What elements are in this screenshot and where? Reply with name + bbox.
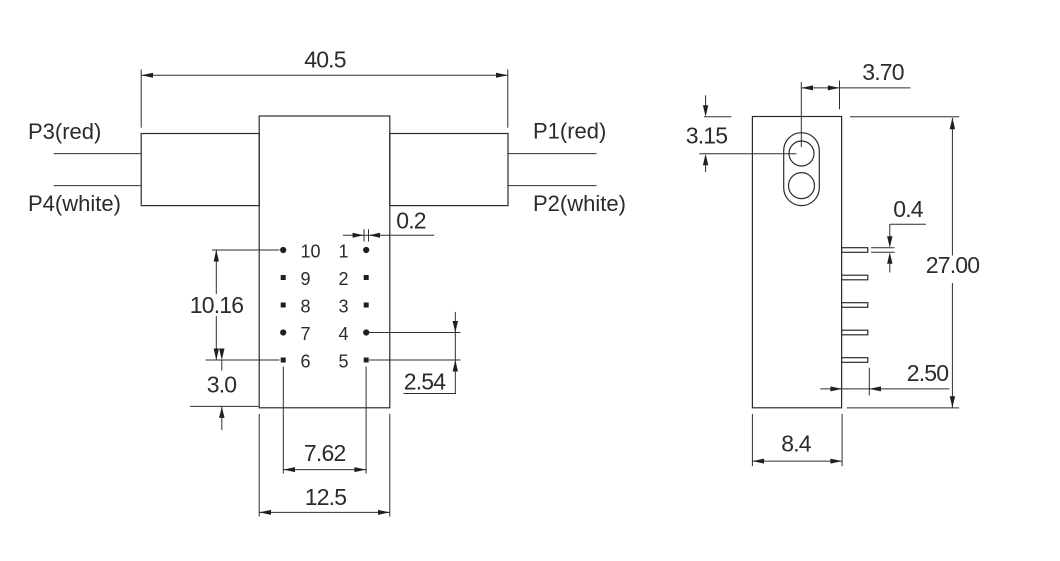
pin 9 dot [281,275,286,280]
pin 8 dot [281,303,286,308]
fiber bore stadium outline [784,133,820,206]
pin 5 dot [364,358,369,363]
pin 4 dot [363,329,369,335]
svg-text:4: 4 [339,324,349,344]
fiber bore circle lower [789,173,815,199]
dimension 3.15 arrow up [703,154,708,166]
dimension 3.70 arrow right [828,85,840,90]
wire P2 [508,185,597,187]
dimension 2.50 arrow pointing left [869,386,881,391]
svg-text:27.00: 27.00 [926,252,980,278]
svg-text:12.5: 12.5 [305,484,347,510]
svg-text:3: 3 [339,297,349,317]
dimension 8.4 right extension [841,414,843,466]
dimension 7.62 arrow left [283,467,295,472]
pin 10 reference line [212,249,280,251]
dimension 0.4 underline [890,223,926,225]
svg-text:P3(red): P3(red) [28,119,101,144]
right view package body [752,117,841,408]
svg-text:3.15: 3.15 [686,123,728,149]
dimension 12.5 arrow left [259,510,271,515]
dimension 3.70 right extension [839,81,841,110]
pin 1 dot [363,247,369,253]
dimension 40.5 line [141,74,508,76]
dimension 2.50 line [820,388,949,390]
svg-text:3.70: 3.70 [862,59,904,85]
dimension 3.70 line [801,87,910,89]
dimension 2.50 arrow pointing right [830,386,842,391]
svg-text:P4(white): P4(white) [28,191,121,216]
dimension 3.15 top extension line [704,116,731,118]
svg-text:P2(white): P2(white) [533,191,626,216]
dimension 10.16 line upper [215,250,217,294]
dimension 40.5 arrow right [496,73,508,78]
dimension 12.5 arrow right [378,510,390,515]
svg-text:7.62: 7.62 [304,440,346,466]
side pin 1 tab [842,248,868,253]
fiber bore circle upper [789,141,814,166]
dimension 27.00 arrow down [950,396,955,408]
svg-text:8: 8 [301,297,311,317]
dimension 27.00 arrow up [950,118,955,130]
dimension 2.50 extension line at pin end [868,368,870,396]
pin 2 dot [364,275,369,280]
dimension 0.4 lower tail [889,263,891,273]
dimension 8.4 line [752,460,842,462]
pin 7 dot [280,329,286,335]
left view package body [259,116,390,408]
dimension 0.4 tick top [871,247,895,249]
svg-text:2.54: 2.54 [404,369,447,395]
dimension 27.00 line upper [951,118,953,256]
pin 4 reference line [369,332,460,334]
pin 5 reference line [369,359,460,361]
svg-text:0.4: 0.4 [893,196,924,222]
dimension 8.4 arrow right [830,459,842,464]
svg-text:P1(red): P1(red) [533,119,606,144]
side pin 2 tab [842,275,868,280]
body left edge extension downward [258,414,260,517]
svg-text:40.5: 40.5 [304,47,346,73]
dimension 8.4 left extension [751,414,753,466]
dimension 40.5 extension line right [507,70,509,128]
dimension 0.4 arrow up [887,252,892,263]
pin 6 dot [281,358,286,363]
dimension 12.5 line [259,511,390,513]
dimension 3.0 tail below body bottom [221,406,223,430]
dimension 7.62 arrow right [354,467,366,472]
dimension 10.16 arrow up [214,250,219,262]
dimension 7.62 line [283,469,366,471]
dimension 8.4 arrow left [752,459,764,464]
svg-text:9: 9 [301,269,311,289]
svg-text:2.50: 2.50 [907,360,949,386]
dimension 27.00 line lower [951,283,953,408]
dimension 0.4 leader vertical [889,224,891,237]
wire P4 [54,185,142,187]
dimension 0.2 tick left [363,229,365,241]
svg-text:1: 1 [339,242,349,262]
dimension 3.70 arrow left [801,85,813,90]
left port ferrule (P3/P4) [141,134,259,206]
dimension 0.2 arrow pointing right [353,233,364,238]
dimension 10.16 line lower [215,316,217,360]
dimension 3.15 upper tail [705,95,707,107]
right port ferrule (P1/P2) [390,134,508,206]
dimension 27.00 top extension line [850,116,959,118]
svg-text:8.4: 8.4 [781,431,812,457]
svg-text:5: 5 [339,352,349,372]
wire P3 [54,153,142,155]
dimension 0.4 tick bottom [871,251,895,253]
svg-text:2: 2 [339,269,349,289]
side pin 4 tab [842,330,868,335]
dimension 3.0 arrow up at body bottom [219,406,224,418]
svg-text:10.16: 10.16 [190,292,244,318]
pin 6 reference line [206,359,280,361]
dimension 0.2 line [343,234,434,236]
pin 5 extension line downward [365,367,367,474]
side pin 5 tab [842,358,868,363]
dimension 40.5 arrow left [141,73,153,78]
dimension 3.0 arrow down at pin6 line [219,349,224,361]
dimension 10.16 arrow down [214,349,219,361]
side pin 3 tab [842,303,868,308]
svg-text:10: 10 [301,242,321,262]
dimension 2.54 arrow up [453,360,458,372]
pin 3 dot [364,303,369,308]
dimension 2.54 vertical line [454,312,456,394]
svg-text:3.0: 3.0 [207,372,237,398]
dimension 3.70 hole center extension [800,82,802,147]
body right edge extension downward [389,414,391,517]
body bottom extension line left [190,405,259,407]
hole center reference line [699,153,796,155]
dimension 3.0 tail below pin6 line [221,360,223,371]
svg-text:7: 7 [301,324,311,344]
dimension 0.2 arrow pointing left [369,233,380,238]
pin 6 extension line downward [282,367,284,474]
pin 10 dot [280,247,286,253]
dimension 2.54 underline [404,393,457,395]
wire P1 [508,153,597,155]
dimension 2.54 arrow down [453,321,458,333]
dimension 3.15 lower tail [705,163,707,172]
dimension 0.4 arrow down [887,236,892,248]
svg-text:0.2: 0.2 [396,208,426,234]
dimension 27.00 bottom extension line [847,407,960,409]
dimension 40.5 extension line left [140,70,142,128]
dimension 0.2 tick right [368,229,370,241]
svg-text:6: 6 [301,352,311,372]
dimension 3.15 arrow down [703,105,708,117]
